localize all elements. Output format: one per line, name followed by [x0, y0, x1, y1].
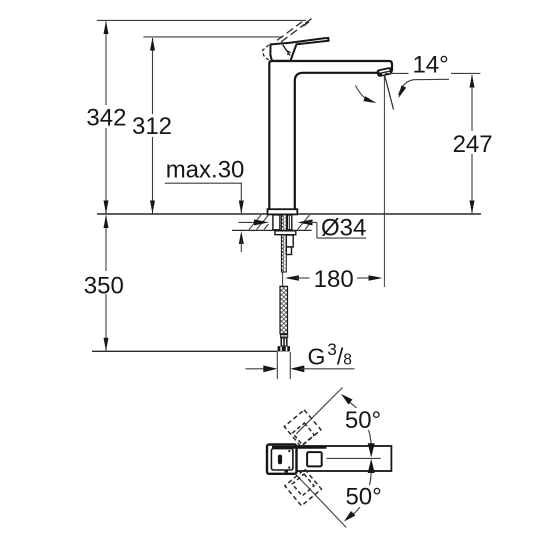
- plan body rect: [268, 446, 391, 471]
- 14deg arc left: [356, 86, 372, 103]
- hose nut: [278, 346, 290, 351]
- plan dots: [288, 450, 290, 452]
- lower arc arrowhead: [344, 511, 356, 522]
- upper diagonal: [296, 388, 342, 434]
- faucet body outline: [269, 61, 392, 209]
- plan inner rect: [271, 449, 293, 470]
- plan cartridge square: [307, 452, 322, 466]
- countertop line: [97, 213, 481, 215]
- tailpiece step 1: [286, 235, 293, 247]
- upper dashed diamond outer: [284, 410, 321, 447]
- svg-text:342: 342: [86, 105, 126, 132]
- flexible hose braid: [280, 286, 288, 334]
- upper dashed diamond inner: [292, 423, 314, 445]
- dimension line 350: [83, 215, 126, 351]
- aerator: [376, 67, 393, 78]
- extension lines: [276, 352, 278, 379]
- handle internal line: [283, 45, 290, 56]
- hose end line: [92, 350, 278, 352]
- label max.30 with underline leader: [165, 157, 245, 252]
- hose joint thin line: [282, 272, 284, 286]
- threaded rod: [281, 214, 286, 272]
- svg-text:247: 247: [453, 131, 493, 158]
- stream tilted line: [385, 75, 394, 109]
- base flange: [268, 209, 298, 214]
- hole sleeve left: [273, 215, 280, 230]
- upper arc: [349, 402, 371, 437]
- svg-text:350: 350: [84, 272, 124, 299]
- lower dashed diamond inner: [292, 474, 314, 496]
- hole sleeve right: [287, 215, 292, 230]
- handle lever solid: [270, 38, 328, 61]
- knuckle small dashes: [287, 51, 290, 55]
- svg-text:180: 180: [314, 266, 354, 293]
- dimension arrows: [246, 365, 355, 372]
- washer: [275, 231, 296, 235]
- lower dashed diamond outer: [285, 469, 322, 506]
- plan lever band: [272, 446, 327, 449]
- outlet level line right segment: [451, 72, 480, 74]
- dimension line 342: [85, 21, 128, 214]
- hourglass arrow upper: [368, 443, 375, 457]
- lower arc: [352, 478, 371, 515]
- counter hatching right: [298, 215, 312, 230]
- svg-text:50°: 50°: [345, 484, 381, 511]
- handle rotated knuckle dashed: [263, 45, 272, 61]
- lower diagonal: [296, 475, 346, 528]
- extension line top of body (312): [143, 36, 283, 38]
- diameter 34 arrows: [239, 219, 367, 238]
- hourglass arrow lower: [368, 459, 375, 473]
- hose body: [281, 338, 288, 346]
- svg-text:max.30: max.30: [166, 157, 245, 184]
- outlet level line left segment: [385, 72, 409, 74]
- upper arc arrowhead: [341, 394, 353, 405]
- svg-text:Ø34: Ø34: [321, 215, 366, 242]
- svg-text:14°: 14°: [412, 51, 448, 78]
- vertical extension from outlet: [383, 74, 385, 287]
- plan D mark: [278, 455, 282, 465]
- tailpiece step 2: [286, 247, 291, 255]
- counter hatching left: [249, 215, 269, 230]
- extension line top of handle (342): [97, 19, 306, 21]
- dimension line 247: [450, 75, 494, 214]
- plan knuckle square: [267, 445, 297, 474]
- handle raised dashed lines: [277, 19, 312, 42]
- svg-text:50°: 50°: [345, 407, 381, 434]
- spout underside line fix: [382, 71, 392, 73]
- svg-text:312: 312: [132, 113, 172, 140]
- dimension line 312: [131, 38, 174, 214]
- plan centerline: [326, 457, 380, 459]
- plan bottom dark mark: [285, 470, 289, 473]
- 14deg leader arc right: [399, 79, 449, 95]
- counter bottom line: [232, 229, 312, 231]
- hose collar: [280, 334, 288, 338]
